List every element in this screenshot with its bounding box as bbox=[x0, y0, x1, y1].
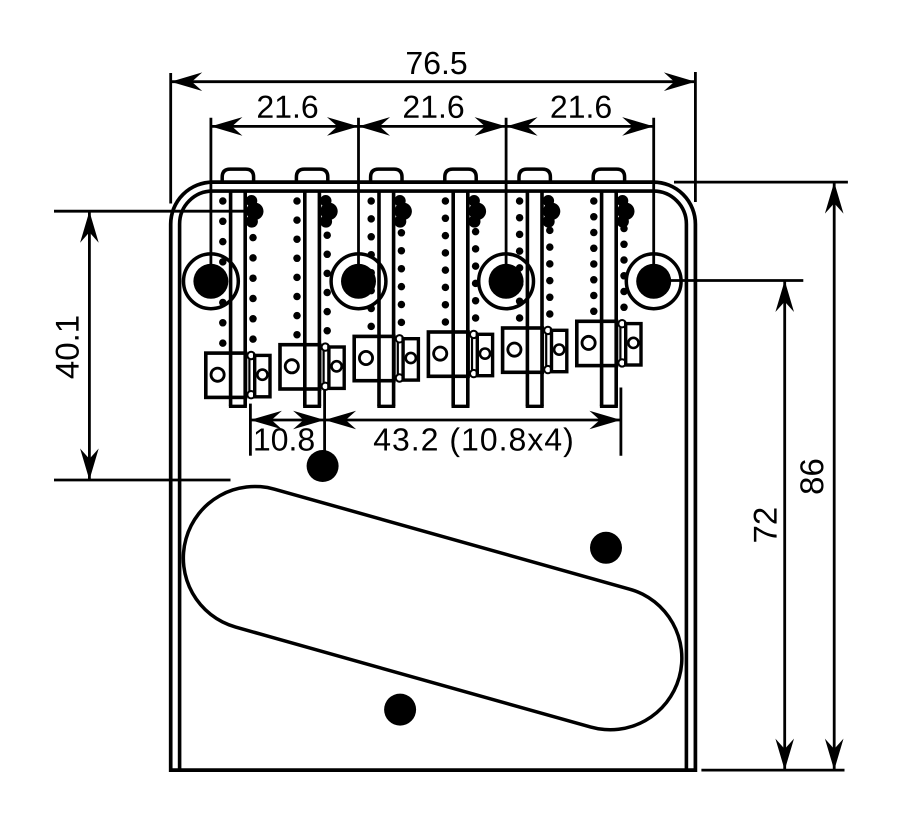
saddle 5 height bracket bbox=[552, 330, 567, 371]
intonation screw 2 shaft bbox=[303, 192, 321, 407]
intonation screw 5 shaft bbox=[526, 192, 544, 407]
string 4 ball end bbox=[468, 195, 486, 228]
label 21.6 c bbox=[552, 95, 611, 118]
saddle 2 height bracket bbox=[329, 347, 344, 388]
10.8 dim right extension line bbox=[323, 390, 326, 456]
label 21.6 b bbox=[404, 95, 463, 118]
saddle 3 side clip bbox=[396, 335, 403, 382]
saddle 3 block bbox=[354, 336, 394, 380]
86 dim top extension line bbox=[674, 181, 848, 184]
string 5 ball end bbox=[543, 195, 561, 228]
intonation screw 3 shaft bbox=[377, 192, 395, 407]
saddle 4 block hole bbox=[434, 347, 447, 360]
40.1 dim top extension line bbox=[54, 210, 247, 213]
spring 6 coil dots bbox=[590, 197, 628, 315]
saddle 5 side clip bbox=[544, 327, 551, 374]
bridge plate outer outline bbox=[171, 182, 696, 770]
saddle 3 height bracket bbox=[403, 339, 418, 380]
spring 5 coil dots bbox=[516, 197, 554, 322]
label 40.1 bbox=[56, 316, 79, 378]
mounting hole 4 bbox=[626, 254, 681, 309]
21.6 dim extension line 1 bbox=[209, 118, 212, 281]
saddle 1 block hole bbox=[211, 368, 224, 381]
21.6 dimension line a bbox=[211, 125, 359, 128]
bridge plate inner lip line bbox=[180, 191, 687, 770]
right bottom extension line bbox=[701, 769, 844, 772]
43.2 dim right extension line bbox=[620, 388, 623, 456]
intonation screw 6 shaft bbox=[600, 192, 618, 407]
21.6 dimension line b bbox=[359, 125, 507, 128]
10.8 dim left extension line bbox=[249, 404, 252, 456]
21.6 dim extension line 4 bbox=[652, 118, 655, 281]
spring 2 coil dots bbox=[293, 197, 331, 338]
string 3 ball end bbox=[394, 195, 412, 228]
spring 4 coil dots bbox=[442, 197, 480, 326]
saddle 5 block bbox=[503, 328, 543, 372]
21.6 dim extension line 2 bbox=[357, 118, 360, 281]
saddle 6 height bracket bbox=[626, 324, 641, 365]
21.6 dim extension line 3 bbox=[505, 118, 508, 281]
string 6 ball end bbox=[617, 195, 635, 228]
intonation screw 4 shaft bbox=[452, 192, 470, 407]
screw hole C bbox=[384, 694, 416, 726]
saddle 3 block hole bbox=[359, 351, 372, 364]
label 43.2 (10.8x4) bbox=[374, 427, 572, 457]
saddle 5 block hole bbox=[508, 343, 521, 356]
label 21.6 a bbox=[258, 95, 317, 118]
76.5 dim right extension line bbox=[694, 72, 697, 202]
string slot tab 1 bbox=[222, 169, 253, 183]
spring 1 coil dots bbox=[219, 197, 257, 347]
string slot tab 6 bbox=[593, 169, 624, 183]
mounting hole 3 bbox=[479, 254, 534, 309]
string slot tab 2 bbox=[296, 169, 327, 183]
saddle 1 side clip bbox=[247, 352, 254, 399]
intonation screw 1 shaft bbox=[229, 192, 247, 407]
76.5 dim left extension line bbox=[169, 73, 172, 204]
label 86 bbox=[800, 460, 823, 494]
saddle 4 side clip bbox=[470, 331, 477, 378]
label 10.8 bbox=[255, 428, 313, 451]
saddle 2 side clip bbox=[322, 343, 329, 390]
saddle 6 block hole bbox=[582, 336, 595, 349]
saddle 4 block bbox=[428, 332, 468, 376]
screw hole A bbox=[307, 450, 339, 482]
saddle 6 block bbox=[577, 321, 617, 365]
40.1 dim bottom extension line bbox=[54, 479, 231, 482]
pickup rout opening (stadium) bbox=[255, 558, 610, 658]
72 dimension line bbox=[783, 281, 786, 771]
10.8 dimension line bbox=[250, 419, 324, 422]
string slot tab 4 bbox=[445, 169, 476, 183]
saddle 6 side clip bbox=[618, 320, 625, 367]
string 2 ball end bbox=[320, 195, 338, 228]
label 76.5 bbox=[407, 52, 466, 75]
86 dimension line bbox=[833, 182, 836, 770]
saddle 2 block bbox=[280, 345, 320, 389]
76.5 dimension line bbox=[171, 80, 696, 83]
string 1 ball end bbox=[246, 195, 264, 228]
spring 3 coil dots bbox=[367, 197, 405, 330]
string slot tab 5 bbox=[519, 169, 550, 183]
saddle 2 block hole bbox=[285, 360, 298, 373]
21.6 dimension line c bbox=[506, 125, 654, 128]
string slot tab 3 bbox=[371, 169, 402, 183]
label 72 bbox=[754, 508, 777, 541]
72 dim top extension line (hole center) bbox=[657, 279, 803, 282]
saddle 4 height bracket bbox=[477, 334, 492, 375]
43.2 dimension line bbox=[325, 419, 621, 422]
40.1 dimension line bbox=[88, 211, 91, 480]
saddle 1 height bracket bbox=[255, 355, 270, 396]
saddle 1 block bbox=[206, 353, 246, 397]
screw hole B bbox=[590, 532, 622, 564]
mounting hole 1 bbox=[184, 254, 239, 309]
mounting hole 2 bbox=[331, 254, 386, 309]
